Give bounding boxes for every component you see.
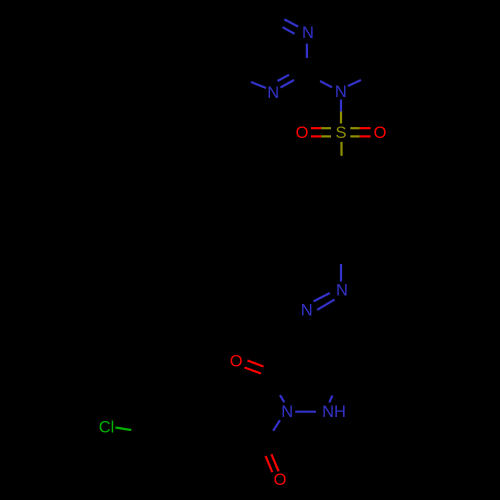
- bond S-C(phenyl) (S olive half): [340, 142, 342, 156]
- bond C6=N1 pyrimidine main line (N half): [284, 19, 298, 26]
- svg-text:N: N: [267, 84, 279, 102]
- svg-text:S: S: [335, 124, 346, 142]
- svg-text:NH: NH: [322, 403, 346, 421]
- bond S=O left lower line olive half: [321, 135, 331, 137]
- bond N1-C(=O) benzoyl (N half): [273, 420, 280, 431]
- bond N1-N2 pyrazolone: [295, 411, 316, 413]
- bond C=O benzoyl second line (O half): [266, 456, 273, 472]
- bond C3=O pyrazolone upper line (O half): [248, 361, 264, 367]
- svg-text:N: N: [301, 302, 313, 320]
- svg-text:O: O: [296, 124, 309, 142]
- bond C3-N1 pyrazolone (N half): [280, 395, 284, 402]
- bond N-CH3 sulfonamide (N half): [348, 80, 361, 86]
- bond N-S upper half (N blue): [340, 100, 342, 112]
- svg-text:Cl: Cl: [99, 419, 115, 437]
- bond N=N azo second line: [314, 293, 330, 301]
- bond C5-N2 pyrazolone (N half): [329, 396, 332, 403]
- bond S=O left upper line red half: [311, 127, 321, 129]
- bond C2=N3 pyrimidine inner aromatic line (N half): [278, 75, 290, 81]
- svg-text:O: O: [274, 471, 287, 489]
- bond S=O left upper line olive half: [321, 127, 331, 129]
- bond C2-N sulfonamide (N half): [320, 81, 332, 87]
- bond C3=O pyrazolone lower line (O half): [245, 368, 262, 374]
- bond C=O benzoyl main line (O half): [271, 454, 278, 471]
- bond N1-C2 pyrimidine (N half): [306, 44, 308, 58]
- bond S=O right lower line red half: [360, 135, 371, 137]
- bond S=O right lower line olive half: [350, 135, 360, 137]
- bond N-S lower half (S olive): [340, 112, 342, 124]
- svg-text:N: N: [302, 24, 314, 42]
- svg-text:N: N: [336, 282, 348, 300]
- bond N=N azo main line: [317, 300, 334, 310]
- bond Cl-C(phenyl) (Cl green half): [115, 428, 131, 431]
- svg-text:O: O: [230, 353, 243, 371]
- bond C(phenyl)-N azo (N half): [340, 264, 342, 282]
- svg-text:N: N: [281, 403, 293, 421]
- bond C2=N3 pyrimidine main line (N half): [281, 80, 295, 88]
- bond S=O right upper line red half: [360, 127, 371, 129]
- svg-text:O: O: [374, 124, 387, 142]
- bond S=O right upper line olive half: [350, 127, 360, 129]
- svg-text:N: N: [335, 83, 347, 101]
- bond C6=N1 pyrimidine inner aromatic line (N half): [283, 27, 295, 34]
- bond N3-C4 pyrimidine (N half): [251, 82, 266, 88]
- bond S=O left lower line red half: [311, 135, 321, 137]
